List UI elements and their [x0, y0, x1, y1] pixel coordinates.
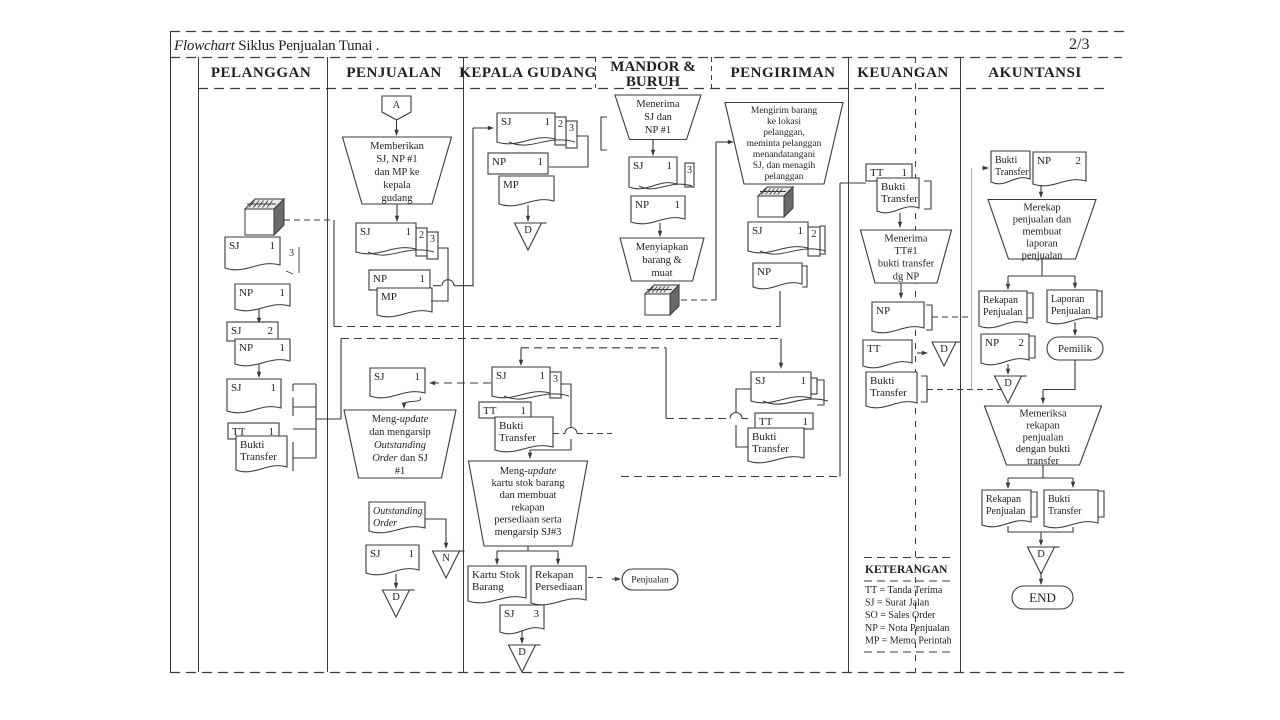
svg-text:pelanggan,: pelanggan,: [763, 128, 804, 138]
svg-text:dan membuat: dan membuat: [500, 490, 557, 501]
svg-text:Transfer: Transfer: [240, 451, 277, 463]
svg-text:1: 1: [271, 382, 277, 394]
svg-text:2: 2: [268, 325, 274, 337]
svg-text:dg NP: dg NP: [893, 271, 920, 282]
svg-text:MP: MP: [381, 291, 397, 303]
svg-text:gudang: gudang: [382, 193, 414, 204]
svg-text:Transfer: Transfer: [870, 387, 907, 399]
svg-text:barang &: barang &: [642, 255, 681, 266]
svg-text:1: 1: [803, 416, 809, 428]
svg-text:1: 1: [538, 156, 544, 168]
svg-text:Outstanding: Outstanding: [373, 506, 422, 517]
svg-text:Order: Order: [373, 518, 397, 529]
svg-text:penjualan dan: penjualan dan: [1013, 215, 1072, 226]
svg-text:1: 1: [798, 225, 804, 237]
svg-text:D: D: [940, 344, 948, 355]
svg-text:3: 3: [289, 248, 294, 259]
svg-text:SJ = Surat Jalan: SJ = Surat Jalan: [865, 598, 929, 609]
svg-text:NP: NP: [373, 273, 387, 285]
svg-text:SJ: SJ: [360, 226, 371, 238]
svg-text:dan mengarsip: dan mengarsip: [369, 427, 431, 438]
svg-text:Mengirim barang: Mengirim barang: [751, 106, 817, 116]
svg-text:Bukti: Bukti: [995, 155, 1017, 166]
svg-text:Penjualan: Penjualan: [631, 576, 669, 586]
svg-text:1: 1: [415, 371, 421, 383]
svg-text:TT = Tanda Terima: TT = Tanda Terima: [865, 585, 943, 596]
svg-text:Meng-update: Meng-update: [500, 466, 557, 477]
svg-text:KEUANGAN: KEUANGAN: [857, 65, 949, 81]
svg-text:BURUH: BURUH: [626, 74, 681, 90]
svg-text:A: A: [393, 100, 401, 111]
svg-text:SJ: SJ: [752, 225, 763, 237]
svg-text:D: D: [1004, 378, 1012, 389]
svg-text:PENGIRIMAN: PENGIRIMAN: [731, 65, 836, 81]
svg-text:TT: TT: [483, 405, 497, 417]
svg-text:SJ, NP #1: SJ, NP #1: [376, 154, 417, 165]
svg-text:kartu stok barang: kartu stok barang: [492, 478, 566, 489]
svg-text:Transfer: Transfer: [881, 193, 918, 205]
svg-text:NP: NP: [492, 156, 506, 168]
svg-text:menandatangani: menandatangani: [753, 150, 816, 160]
svg-text:Barang: Barang: [472, 581, 504, 593]
svg-text:SJ: SJ: [504, 608, 515, 620]
svg-text:3: 3: [553, 374, 558, 385]
svg-text:Rekapan: Rekapan: [983, 295, 1018, 306]
svg-text:D: D: [1037, 549, 1045, 560]
svg-text:2/3: 2/3: [1069, 36, 1089, 53]
svg-text:D: D: [518, 647, 526, 658]
svg-text:Meng-update: Meng-update: [372, 414, 429, 425]
svg-text:N: N: [442, 553, 450, 564]
svg-text:1: 1: [280, 342, 286, 354]
svg-text:Bukti: Bukti: [499, 420, 523, 432]
svg-text:Pemilik: Pemilik: [1058, 343, 1093, 355]
svg-text:Penjualan: Penjualan: [983, 307, 1022, 318]
svg-text:mengarsip SJ#3: mengarsip SJ#3: [495, 527, 562, 538]
svg-text:Transfer: Transfer: [1048, 506, 1082, 517]
svg-text:TT: TT: [759, 416, 773, 428]
svg-text:2: 2: [812, 229, 817, 240]
svg-text:Memeriksa: Memeriksa: [1019, 409, 1067, 420]
svg-text:1: 1: [667, 160, 673, 172]
svg-text:1: 1: [540, 370, 546, 382]
svg-text:Rekapan: Rekapan: [535, 569, 574, 581]
svg-text:SJ: SJ: [633, 160, 644, 172]
svg-text:Bukti: Bukti: [881, 181, 905, 193]
svg-text:pelanggan: pelanggan: [764, 172, 803, 182]
svg-text:penjualan: penjualan: [1023, 432, 1065, 443]
svg-text:1: 1: [280, 287, 286, 299]
svg-text:SO = Sales Order: SO = Sales Order: [865, 610, 936, 621]
svg-text:1: 1: [409, 548, 415, 560]
svg-text:PENJUALAN: PENJUALAN: [346, 65, 441, 81]
svg-text:2: 2: [558, 119, 563, 130]
svg-text:1: 1: [801, 375, 807, 387]
svg-text:KETERANGAN: KETERANGAN: [865, 564, 948, 576]
svg-text:TT: TT: [867, 343, 881, 355]
svg-text:rekapan: rekapan: [511, 502, 545, 513]
svg-text:Kartu Stok: Kartu Stok: [472, 569, 520, 581]
svg-text:SJ: SJ: [496, 370, 507, 382]
svg-text:Bukti: Bukti: [240, 439, 264, 451]
svg-text:3: 3: [534, 608, 540, 620]
svg-text:1: 1: [545, 116, 551, 128]
svg-text:Flowchart Siklus Penjualan Tun: Flowchart Siklus Penjualan Tunai .: [173, 38, 379, 54]
svg-text:kepala: kepala: [383, 180, 411, 191]
svg-text:1: 1: [406, 226, 412, 238]
svg-text:NP: NP: [985, 337, 999, 349]
svg-text:Order dan SJ: Order dan SJ: [372, 453, 428, 464]
svg-text:Rekapan: Rekapan: [986, 494, 1021, 505]
svg-text:meminta pelanggan: meminta pelanggan: [747, 139, 822, 149]
svg-text:SJ dan: SJ dan: [644, 112, 672, 123]
svg-text:1: 1: [521, 405, 527, 417]
svg-text:SJ, dan menagih: SJ, dan menagih: [753, 161, 816, 171]
svg-text:MP: MP: [503, 179, 519, 191]
svg-text:MP = Memo Perintah: MP = Memo Perintah: [865, 635, 952, 646]
svg-text:Bukti: Bukti: [870, 375, 894, 387]
svg-text:Menerima: Menerima: [636, 99, 679, 110]
svg-text:SJ: SJ: [231, 325, 242, 337]
svg-text:Transfer: Transfer: [752, 443, 789, 455]
svg-text:laporan: laporan: [1026, 239, 1058, 250]
svg-text:TT: TT: [870, 167, 884, 179]
svg-text:Persediaan: Persediaan: [535, 581, 583, 593]
svg-text:Laporan: Laporan: [1051, 294, 1084, 305]
svg-text:SJ: SJ: [231, 382, 242, 394]
svg-text:2: 2: [1019, 337, 1025, 349]
svg-text:1: 1: [902, 167, 908, 179]
svg-text:Outstanding: Outstanding: [374, 440, 426, 451]
svg-text:NP: NP: [635, 199, 649, 211]
svg-text:persediaan serta: persediaan serta: [494, 515, 562, 526]
svg-text:NP #1: NP #1: [645, 125, 671, 136]
svg-text:muat: muat: [652, 268, 673, 279]
svg-text:PELANGGAN: PELANGGAN: [211, 65, 311, 81]
svg-text:dan MP ke: dan MP ke: [374, 167, 419, 178]
svg-text:KEPALA GUDANG: KEPALA GUDANG: [459, 65, 596, 81]
svg-text:2: 2: [419, 230, 424, 241]
svg-text:1: 1: [675, 199, 681, 211]
svg-text:2: 2: [1076, 155, 1082, 167]
svg-text:NP: NP: [1037, 155, 1051, 167]
svg-text:NP: NP: [876, 305, 890, 317]
svg-text:Menyiapkan: Menyiapkan: [636, 242, 689, 253]
svg-text:MANDOR &: MANDOR &: [610, 59, 695, 75]
svg-text:1: 1: [420, 273, 426, 285]
svg-text:rekapan: rekapan: [1026, 420, 1060, 431]
svg-text:NP: NP: [757, 266, 771, 278]
svg-text:3: 3: [430, 234, 435, 245]
svg-text:Bukti: Bukti: [1048, 494, 1070, 505]
svg-text:3: 3: [569, 123, 574, 134]
svg-text:Penjualan: Penjualan: [1051, 306, 1090, 317]
svg-text:Menerima: Menerima: [884, 234, 927, 245]
svg-text:Penjualan: Penjualan: [986, 506, 1025, 517]
svg-text:NP = Nota Penjualan: NP = Nota Penjualan: [865, 623, 949, 634]
svg-text:Bukti: Bukti: [752, 431, 776, 443]
svg-text:D: D: [392, 592, 400, 603]
svg-text:#1: #1: [395, 466, 406, 477]
svg-text:SJ: SJ: [374, 371, 385, 383]
svg-text:bukti transfer: bukti transfer: [878, 259, 935, 270]
svg-text:SJ: SJ: [755, 375, 766, 387]
svg-text:NP: NP: [239, 287, 253, 299]
svg-text:Transfer: Transfer: [499, 432, 536, 444]
svg-text:D: D: [524, 225, 532, 236]
svg-text:dengan bukti: dengan bukti: [1016, 444, 1071, 455]
svg-text:TT#1: TT#1: [894, 246, 917, 257]
svg-text:3: 3: [687, 165, 692, 176]
svg-text:Merekap: Merekap: [1023, 203, 1060, 214]
svg-text:SJ: SJ: [229, 240, 240, 252]
svg-text:AKUNTANSI: AKUNTANSI: [988, 65, 1081, 81]
svg-text:ke lokasi: ke lokasi: [767, 117, 801, 127]
svg-text:Memberikan: Memberikan: [370, 141, 424, 152]
svg-text:SJ: SJ: [370, 548, 381, 560]
svg-text:SJ: SJ: [501, 116, 512, 128]
svg-text:END: END: [1029, 590, 1056, 605]
svg-text:membuat: membuat: [1022, 227, 1061, 238]
svg-text:NP: NP: [239, 342, 253, 354]
svg-text:Transfer: Transfer: [995, 167, 1029, 178]
svg-text:1: 1: [270, 240, 276, 252]
